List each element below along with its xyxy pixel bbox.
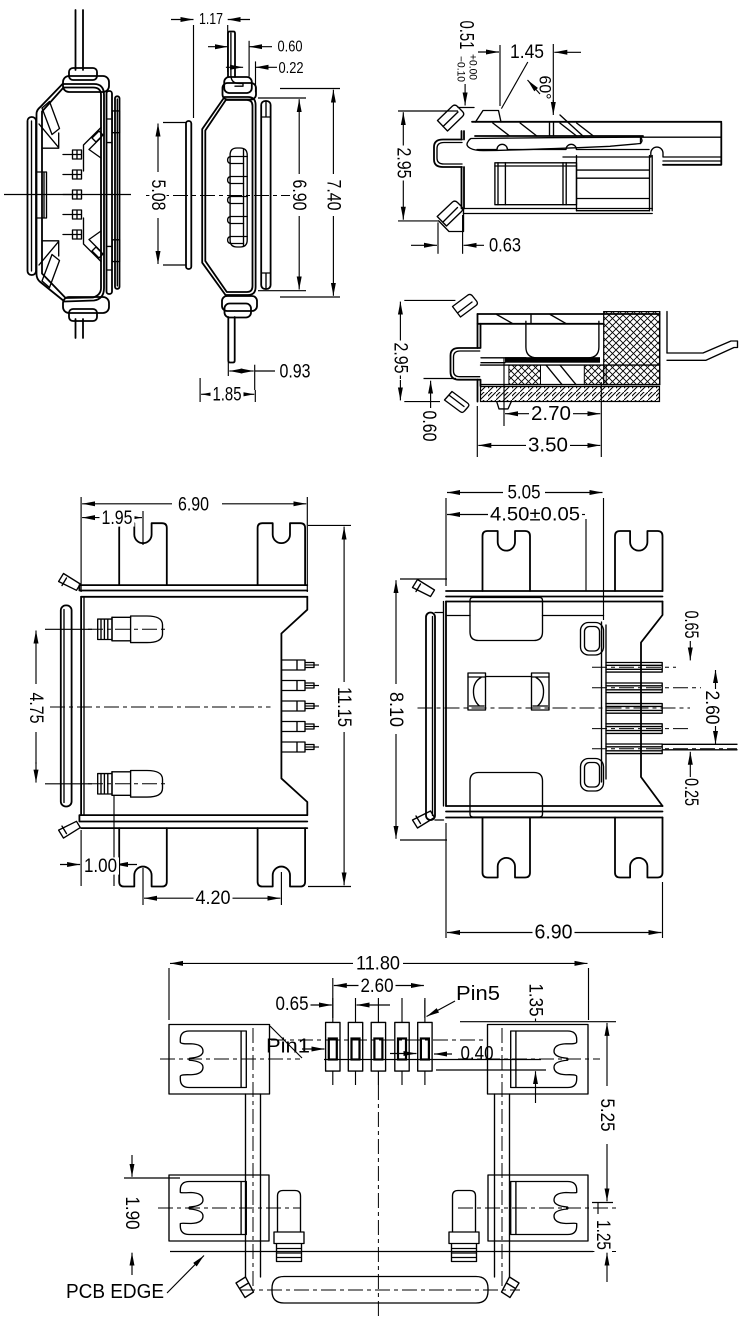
leaf end line <box>641 137 722 143</box>
chamfer tab 0.51 <box>476 111 502 123</box>
dimension 1.85 <box>199 378 201 402</box>
second mid line with bump <box>563 147 721 161</box>
top flange lines <box>79 585 307 597</box>
contact leaf <box>467 137 641 150</box>
top solder tab <box>228 32 235 78</box>
bottom-left latch fold lines <box>39 241 59 265</box>
band diagonal ticks <box>493 122 594 136</box>
svg-text:5.08: 5.08 <box>147 180 169 211</box>
right rail window bottom <box>112 240 119 262</box>
solder bolt right - mirrored at left position <box>274 1191 304 1262</box>
top-left latch finger <box>42 102 60 135</box>
latch tab bottom-left v5 <box>59 821 81 838</box>
dimension 1.25 <box>606 1253 608 1282</box>
middle box outer <box>495 163 577 205</box>
comb edge v6 <box>602 622 607 782</box>
hook top v6 <box>581 623 604 656</box>
dimension 0.25 v6 <box>689 752 691 777</box>
svg-text:2.95: 2.95 <box>392 148 414 179</box>
shell bottom edge v3 <box>464 209 653 214</box>
svg-text:1.35: 1.35 <box>525 984 547 1017</box>
dimension 11.15 <box>308 524 351 526</box>
svg-text:2.60: 2.60 <box>361 975 394 997</box>
top crimp cap inner <box>69 68 97 80</box>
right rail tick marks <box>107 119 113 270</box>
svg-text:1.25: 1.25 <box>592 1220 614 1250</box>
bottom foot tab <box>497 402 512 409</box>
dimension 0.22 <box>255 61 257 92</box>
svg-text:6.90: 6.90 <box>535 922 573 944</box>
svg-text:−0.10: −0.10 <box>455 56 467 82</box>
svg-text:6.90: 6.90 <box>178 494 209 516</box>
dimension 2.60 v6 <box>715 670 717 689</box>
center line view1 <box>4 194 131 196</box>
svg-text:0.65: 0.65 <box>680 611 702 639</box>
latch top tick <box>458 107 474 109</box>
dimension 6.90 bottom v6 <box>445 823 447 938</box>
mid band ticks v4 <box>546 365 576 385</box>
dimension 11.80 <box>168 968 170 1020</box>
left nose v4 <box>451 348 480 380</box>
body outline inner <box>205 100 252 292</box>
top crimp cap outer <box>63 76 109 92</box>
top lug 1 <box>119 523 167 585</box>
dimension 2.70 <box>503 358 505 426</box>
bottom solder tab v2 <box>228 317 234 363</box>
center dash through pins <box>271 1039 483 1041</box>
bottom left corner v3 <box>439 209 464 232</box>
band ticks v4 <box>497 314 567 324</box>
dimension 7.40 <box>280 88 340 90</box>
dimension 2.95 v3 <box>398 110 458 112</box>
svg-text:0.40: 0.40 <box>461 1043 494 1065</box>
dimension 2.95 v4 <box>404 299 455 301</box>
svg-text:0.65: 0.65 <box>276 993 309 1015</box>
contact tail right <box>667 341 738 360</box>
bottom crimp cap inner <box>69 309 97 321</box>
leader 1.45 <box>501 62 527 109</box>
center line v6 <box>418 707 691 709</box>
bottom crimp cap outer <box>63 297 109 313</box>
middle bracket left post <box>468 673 486 710</box>
dimension 3.50 <box>476 406 478 457</box>
dimension 8.10 <box>400 578 447 580</box>
left rail inner line <box>31 121 33 271</box>
svg-text:0.93: 0.93 <box>280 361 311 383</box>
dimension 0.40 <box>434 1053 452 1055</box>
mid line with bumps <box>477 144 649 149</box>
contact bar filled <box>505 357 600 363</box>
screw cylinder top <box>112 616 163 643</box>
dimension 1.45 <box>499 45 501 106</box>
dimension 6.90 v2 <box>258 97 306 99</box>
dimension 1.17 <box>193 25 195 118</box>
legs <box>246 1094 510 1277</box>
svg-text:0.60: 0.60 <box>418 411 440 442</box>
mid band boundaries <box>481 365 660 385</box>
svg-text:5.25: 5.25 <box>596 1099 618 1132</box>
dimension 1.00 <box>80 830 82 886</box>
60 degree chamfer tick <box>560 115 584 137</box>
dimension 5.08 <box>163 122 186 124</box>
mount pad top-right <box>488 1025 589 1095</box>
svg-text:7.40: 7.40 <box>322 180 344 211</box>
svg-text:0.63: 0.63 <box>489 234 521 256</box>
solder bolt left <box>449 1191 479 1262</box>
middle bracket top line <box>486 676 532 678</box>
shell left edge v3 <box>462 131 465 209</box>
dimension 5.05 <box>445 498 447 586</box>
dimension 1.95 <box>142 511 144 545</box>
pin pads <box>326 1022 340 1071</box>
body left edge inner <box>83 597 85 815</box>
latch tab top-left v6 <box>413 580 435 597</box>
center line view2 <box>146 195 290 197</box>
svg-text:2.70: 2.70 <box>531 403 571 425</box>
svg-text:0.51: 0.51 <box>455 21 477 50</box>
crosshatch block <box>604 312 660 385</box>
bottom-left latch tab v3 <box>437 201 463 226</box>
right shell rail <box>261 101 270 289</box>
top flange lines v6 <box>446 591 663 602</box>
bottom lug 1 v6 <box>483 818 531 878</box>
bottom crimp cap small v2 <box>225 304 252 318</box>
bottom-right latch wedge <box>84 218 102 262</box>
body outline v6 <box>446 602 663 807</box>
right rail 2 outer <box>115 96 120 288</box>
svg-text:Pin5: Pin5 <box>456 983 500 1005</box>
dimension 0.65 v7 <box>309 1004 332 1006</box>
latch tab top-left v5 <box>59 574 81 591</box>
bottom band hatched <box>481 387 660 402</box>
svg-text:4.20: 4.20 <box>196 887 231 909</box>
chamfer level line v6 <box>446 615 604 617</box>
svg-text:1.90: 1.90 <box>121 1197 143 1230</box>
dimension 0.63 <box>437 222 439 253</box>
solder tab wire top <box>76 10 84 70</box>
hook bottom v6 <box>581 759 604 792</box>
shell top band <box>472 122 721 136</box>
shell inner outline <box>42 88 101 299</box>
top cap large <box>223 83 257 100</box>
svg-text:4.75: 4.75 <box>25 693 47 724</box>
lower right block <box>577 156 653 211</box>
svg-text:0.25: 0.25 <box>680 778 702 806</box>
bottom-left latch tab v4 <box>445 392 469 413</box>
bottom crimp cap large v2 <box>222 296 257 311</box>
pin bottom line <box>324 1059 541 1061</box>
front tongue v6 <box>426 613 435 821</box>
body outline v5 <box>81 597 307 815</box>
svg-text:11.80: 11.80 <box>356 952 400 974</box>
svg-text:1.00: 1.00 <box>84 855 117 877</box>
dimension 1.35 <box>460 1021 616 1023</box>
bottom-right latch window <box>92 247 103 258</box>
svg-text:8.10: 8.10 <box>385 692 407 727</box>
bottom-left latch finger <box>42 255 60 288</box>
bottom flange lines v6 <box>446 806 663 818</box>
bottom flange lines <box>79 815 307 828</box>
svg-text:11.15: 11.15 <box>333 687 355 727</box>
mount pad bottom-right <box>488 1175 588 1241</box>
contact stack column <box>230 148 247 247</box>
shell left edge v4 <box>478 314 481 402</box>
top-left latch fold lines <box>39 124 59 148</box>
dimension 5.25 <box>592 1202 613 1204</box>
right leg foot <box>502 1277 520 1298</box>
left leg foot <box>236 1277 254 1298</box>
svg-text:1.45: 1.45 <box>510 41 544 63</box>
body left edge double v6 <box>435 602 444 821</box>
svg-text:+0.00: +0.00 <box>467 54 479 80</box>
cavity floor lines <box>481 358 526 363</box>
top cap small <box>224 77 252 93</box>
right end edge v3 <box>663 123 721 165</box>
svg-text:0.22: 0.22 <box>279 60 304 77</box>
top lug 2 <box>258 523 306 585</box>
right rail 2 center line <box>116 99 118 286</box>
dimension 6.90 v5 <box>80 497 82 592</box>
pins v5 <box>282 660 314 670</box>
pin5 tail lines <box>662 744 737 750</box>
dimension 0.60 <box>248 41 250 77</box>
left mating rail <box>28 117 37 275</box>
shell top band v4 <box>478 314 660 324</box>
top lug 2 v6 <box>615 531 663 591</box>
bottom lug 2 <box>258 828 306 886</box>
pad center dashes <box>160 1058 300 1060</box>
center line v5 <box>50 706 271 708</box>
body outline outer <box>202 97 255 295</box>
svg-text:3.50: 3.50 <box>528 434 568 456</box>
bottom lug 2 v6 <box>615 818 663 878</box>
solder tab wire bottom <box>76 319 84 338</box>
inner cavity blob <box>526 321 599 358</box>
svg-text:4.50±0.05: 4.50±0.05 <box>490 504 580 526</box>
middle bracket right post <box>532 673 550 710</box>
insulator block bottom <box>470 773 543 818</box>
mount pad bottom-left <box>169 1175 269 1241</box>
top-left latch tab v3 <box>438 105 464 131</box>
svg-text:PCB EDGE: PCB EDGE <box>66 1281 164 1303</box>
svg-text:6.90: 6.90 <box>288 180 310 211</box>
mid band hatch boxes <box>509 365 541 385</box>
svg-text:1.85: 1.85 <box>213 383 242 405</box>
top lug 1 v6 <box>483 531 531 591</box>
top-right latch window <box>92 131 103 142</box>
svg-text:Pin1: Pin1 <box>266 1036 310 1058</box>
bottom lug 1 <box>119 828 167 886</box>
top-left latch tab v4 <box>453 294 478 317</box>
shell outer outline <box>37 84 105 302</box>
front tongue v5 <box>61 605 72 806</box>
svg-text:1.95: 1.95 <box>102 507 133 529</box>
contact stack inner line <box>243 149 245 246</box>
PCB edge line <box>170 1251 593 1253</box>
svg-text:1.17: 1.17 <box>199 11 223 28</box>
dimension 4.50 <box>585 519 587 591</box>
middle box walls <box>495 163 577 205</box>
svg-text:5.05: 5.05 <box>508 482 541 504</box>
svg-text:2.95: 2.95 <box>389 343 411 374</box>
mount pad top-left <box>169 1025 270 1095</box>
dimension 4.20 <box>142 868 144 905</box>
dimension 0.60 v4 <box>424 378 457 380</box>
svg-text:60°: 60° <box>536 76 555 100</box>
contact bumps <box>228 157 248 164</box>
right rail window top <box>112 111 119 133</box>
dimension 4.75 <box>45 628 92 630</box>
insulator block top <box>470 598 543 641</box>
left nose v3 <box>434 140 462 168</box>
svg-text:0.60: 0.60 <box>278 39 303 56</box>
left mating rail v2 <box>186 121 191 269</box>
dimension 0.93 <box>227 362 229 376</box>
dimension 2.60 v7 <box>332 978 334 1018</box>
pins v6 <box>606 663 662 673</box>
left notch <box>37 172 47 218</box>
top tab contact bend <box>231 33 243 86</box>
dimension 1.90 <box>124 1177 180 1179</box>
latch tab bottom-left v6 <box>413 811 435 828</box>
top-right latch wedge <box>84 128 102 172</box>
screw cylinder bottom <box>112 771 163 798</box>
right edge v4 <box>660 312 667 385</box>
contact squares <box>73 150 82 159</box>
svg-text:2.60: 2.60 <box>701 691 723 725</box>
front stadium <box>272 1277 488 1304</box>
right rail 1 <box>107 91 113 294</box>
right shell rail notches <box>261 101 270 289</box>
